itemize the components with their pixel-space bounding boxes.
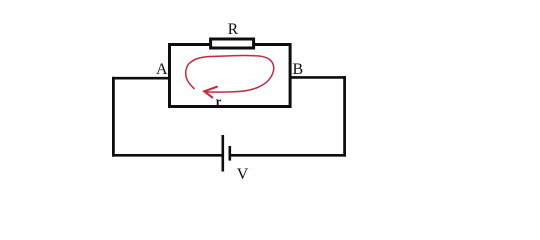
svg-text:V: V bbox=[237, 166, 249, 183]
battery V short plate bbox=[229, 146, 232, 161]
battery V long plate bbox=[222, 135, 225, 172]
box between nodes A and B bbox=[170, 45, 291, 107]
wire right horizontal from node B to right vertical bbox=[291, 76, 347, 79]
svg-text:B: B bbox=[293, 61, 304, 78]
wire right vertical bbox=[343, 76, 346, 156]
svg-text:A: A bbox=[156, 61, 168, 78]
resistor R body bbox=[211, 39, 254, 48]
wire left horizontal from node A to left vertical bbox=[112, 77, 169, 80]
wire bottom right from battery bbox=[230, 154, 346, 157]
svg-text:r: r bbox=[216, 93, 222, 108]
wire left vertical bbox=[112, 77, 115, 157]
svg-text:R: R bbox=[228, 21, 239, 38]
wire bottom left to battery bbox=[112, 154, 223, 157]
red arrowhead bbox=[204, 87, 217, 98]
red current loop arrow (internal resistance r loop) bbox=[186, 55, 274, 92]
